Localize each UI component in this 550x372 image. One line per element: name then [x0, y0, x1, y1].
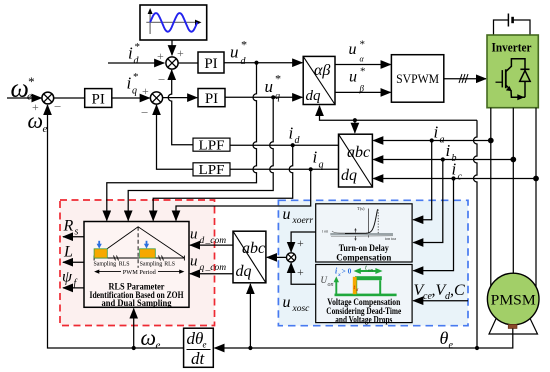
svg-text:RLS: RLS — [119, 262, 130, 268]
block PI q-axis controller — [198, 89, 225, 108]
sampling arrow 2 — [146, 241, 148, 246]
svg-text:+: + — [297, 236, 304, 250]
svg-text:on: on — [368, 269, 374, 274]
junction ud* node — [254, 61, 258, 65]
svg-text:i: i — [128, 44, 133, 63]
summing junction S4 compensation — [287, 236, 305, 279]
svg-text:RLS: RLS — [164, 262, 175, 268]
PWM period double arrow — [94, 268, 184, 276]
svg-text:*: * — [360, 66, 366, 78]
wire theta_e right vertical with hops — [474, 120, 477, 348]
block abc/dq compensation transform — [233, 231, 266, 283]
sampling axis — [94, 256, 184, 261]
junction ic drop node — [451, 176, 455, 180]
wire theta drop into abc/dq current transform — [354, 120, 356, 133]
block alphabeta/dq inverse Park transform — [303, 56, 335, 104]
svg-text:Sampling: Sampling — [140, 262, 163, 268]
sampling window 2 — [140, 249, 156, 258]
svg-text:u: u — [190, 227, 198, 243]
svg-text:e: e — [203, 340, 207, 350]
wire ib sign drop to turn-on comp — [413, 160, 443, 243]
svg-text:PWM Period: PWM Period — [123, 269, 157, 276]
svg-text:ton toa: ton toa — [385, 236, 396, 241]
svg-text:+: + — [157, 49, 164, 63]
wire u_xosc to S4 — [291, 263, 316, 284]
svg-text:*: * — [275, 72, 281, 86]
wire L output — [63, 261, 84, 263]
svg-text:dθ: dθ — [187, 329, 204, 348]
svg-text:i: i — [434, 123, 439, 142]
svg-text:SVPWM: SVPWM — [396, 72, 439, 86]
block voltage compensation — [316, 264, 412, 326]
junction omega to RLS node — [132, 346, 136, 350]
svg-text:PMSM: PMSM — [491, 293, 536, 309]
carrier centre dashed line — [137, 227, 139, 269]
svg-text:q: q — [275, 91, 280, 102]
block Inverter — [487, 35, 538, 108]
junction phase B tap — [510, 157, 516, 163]
svg-text:LPF: LPF — [199, 138, 225, 153]
svg-text:q: q — [132, 86, 137, 97]
svg-text:*: * — [28, 74, 35, 89]
wire PI speed to S2 — [112, 97, 150, 99]
wire S3 to PI d — [178, 62, 198, 64]
wire ic sign drop to voltage comp — [413, 179, 453, 271]
wire id drop to RLS with hop — [153, 145, 293, 220]
block SVPWM — [391, 55, 443, 102]
svg-text:abc: abc — [242, 240, 265, 257]
summing junction S2 — [141, 84, 163, 120]
svg-text:PI: PI — [92, 92, 105, 108]
block RLS identification — [84, 222, 189, 308]
block PI speed controller — [85, 89, 112, 108]
wire ud* drop to RLS with hops — [107, 63, 257, 221]
svg-text:+: + — [177, 46, 184, 60]
wire ib measurement to abc/dq — [373, 159, 513, 161]
svg-text:u: u — [230, 43, 239, 62]
svg-text:x: x — [337, 272, 341, 278]
svg-text:L: L — [63, 244, 73, 261]
IGBT symbol — [496, 81, 503, 83]
svg-text:,C: ,C — [450, 282, 465, 299]
svg-text:e: e — [43, 123, 48, 135]
wire id output to LPF1 — [230, 144, 339, 146]
svg-text:*: * — [241, 38, 247, 52]
wire Vce Vd C parameters to voltage comp — [413, 300, 468, 302]
block d(theta)/dt differentiator — [184, 328, 214, 368]
wire S2 to PI q — [163, 97, 198, 99]
svg-text:dq: dq — [341, 167, 357, 184]
wire ualpha* to SVPWM — [335, 64, 391, 66]
svg-text:e: e — [449, 340, 454, 351]
wire psi_f output — [63, 287, 84, 289]
wire omega_e up to RLS — [133, 309, 135, 348]
svg-text:t on: t on — [322, 229, 328, 234]
wire PI d to alphabeta-dq (ud*) — [224, 62, 302, 64]
svg-text:*: * — [359, 39, 365, 51]
svg-text:abc: abc — [347, 144, 370, 161]
block LPF2 — [193, 163, 230, 178]
svg-text:u: u — [283, 294, 291, 311]
svg-text:dq: dq — [306, 88, 322, 104]
wire u_xoerr to S4 — [291, 232, 316, 252]
svg-text:_com: _com — [205, 263, 227, 273]
svg-text:R: R — [63, 218, 74, 235]
svg-text:i: i — [446, 141, 451, 160]
wire PI q to alphabeta-dq (uq*) — [225, 96, 302, 98]
svg-text:−: − — [158, 72, 165, 87]
dead-time compensation dashed region box — [278, 200, 468, 325]
HF injection sine source box — [140, 5, 207, 40]
wire uq* drop to RLS with hops — [128, 97, 273, 220]
svg-text:d: d — [200, 236, 205, 246]
block abc/dq current transform — [339, 134, 373, 187]
svg-text:Compensation: Compensation — [336, 252, 391, 263]
svg-text:+: + — [297, 265, 304, 279]
wire LPF1 output to S3 minus with hop — [168, 70, 193, 145]
svg-text:i: i — [289, 124, 294, 143]
PWM carrier triangle — [94, 227, 184, 258]
svg-text:−: − — [54, 99, 61, 114]
svg-text:−: − — [141, 105, 148, 120]
summing junction S3 — [157, 46, 184, 87]
svg-text:*: * — [134, 41, 140, 53]
encoder — [508, 324, 517, 328]
wire ia measurement to abc/dq — [373, 140, 491, 142]
wire LPF2 output to S2 minus — [157, 105, 194, 169]
svg-text:c: c — [458, 172, 463, 183]
block PI d-axis controller — [198, 52, 224, 73]
svg-text:> 0: > 0 — [342, 267, 352, 276]
svg-text:u: u — [349, 41, 357, 58]
block LPF1 — [193, 138, 230, 153]
wire S4 to abc/dq — [267, 256, 287, 258]
svg-text:on: on — [328, 282, 334, 288]
junction phase C tap — [533, 176, 539, 182]
svg-text:ω: ω — [141, 325, 157, 350]
svg-text:PI: PI — [205, 91, 218, 107]
svg-text:i: i — [127, 74, 132, 93]
summing junction S1 — [32, 92, 61, 114]
green waveform — [335, 294, 397, 297]
svg-text:xosc: xosc — [292, 304, 311, 314]
svg-text:αβ: αβ — [314, 62, 330, 79]
RLS dashed region box — [60, 200, 215, 326]
junction theta to abc/dq — [353, 118, 357, 122]
junction iq node — [309, 167, 313, 171]
svg-text:dq: dq — [236, 263, 252, 280]
svg-text:ω: ω — [28, 108, 44, 133]
block PMSM motor — [487, 273, 539, 334]
wire id* input — [108, 62, 164, 64]
svg-text:q: q — [319, 160, 324, 171]
sampling arrow 1 — [98, 241, 100, 246]
block turn-on delay compensation — [316, 204, 412, 264]
battery DC bus symbol — [494, 14, 531, 36]
svg-text:u: u — [265, 77, 274, 96]
wire ia sign drop to turn-on comp — [413, 141, 431, 220]
wire ic measurement to abc/dq — [373, 178, 536, 180]
svg-text:dt: dt — [191, 349, 206, 368]
wire theta up to comp abc/dq — [249, 284, 251, 348]
junction phase A tap — [488, 138, 494, 144]
svg-text:i: i — [313, 148, 318, 167]
svg-text:T(s): T(s) — [357, 206, 365, 211]
svg-text:a: a — [440, 135, 445, 146]
junction ib drop node — [441, 157, 445, 161]
sampling window 1 — [94, 249, 107, 258]
svg-text:_com: _com — [205, 236, 227, 246]
svg-text:U: U — [321, 275, 328, 285]
junction uq* node — [271, 95, 275, 99]
wire iq drop to RLS — [176, 169, 311, 220]
svg-text:e: e — [156, 340, 161, 352]
wire Rs output — [63, 236, 84, 238]
wire SVPWM to inverter with gate bundle slashes — [444, 74, 486, 83]
svg-text:u: u — [283, 206, 291, 223]
svg-text:θ: θ — [440, 328, 449, 348]
wire ud_com to RLS — [190, 244, 233, 246]
svg-text:PI: PI — [204, 56, 217, 72]
wire S1 to PI speed — [54, 97, 85, 99]
wire iq output to LPF2 — [230, 168, 339, 170]
freewheel diode — [524, 69, 526, 97]
svg-text:u: u — [190, 254, 198, 270]
junction id node — [291, 143, 295, 147]
wire ubeta* to SVPWM — [335, 91, 391, 93]
wire phase C vertical — [535, 108, 537, 288]
svg-text:+: + — [142, 84, 149, 98]
wire omega_e output to S1 — [48, 105, 184, 348]
junction ia drop node — [430, 138, 434, 142]
svg-text:q: q — [200, 263, 205, 273]
svg-text:and Dual Sampling: and Dual Sampling — [102, 298, 172, 308]
svg-text:and Voltage Drops: and Voltage Drops — [335, 314, 392, 325]
svg-text:i: i — [452, 160, 457, 179]
junction theta vertical node — [475, 346, 479, 350]
svg-text:xoerr: xoerr — [292, 216, 314, 226]
junction theta to comp transform node — [248, 346, 252, 350]
svg-text:*: * — [133, 71, 139, 83]
wire phase B vertical — [512, 108, 514, 274]
wire sine to S3 — [171, 40, 173, 55]
wire theta_e bottom from encoder to d(theta)/dt — [215, 329, 513, 349]
svg-text:Sampling: Sampling — [94, 262, 117, 268]
wire theta_e top feedback — [320, 106, 478, 120]
wire omega_e* input — [7, 97, 42, 99]
svg-text:Inverter: Inverter — [492, 41, 532, 55]
svg-text:u: u — [349, 69, 357, 86]
wire phase A vertical — [490, 108, 492, 287]
svg-text:s: s — [75, 227, 79, 238]
svg-text:ψ: ψ — [62, 269, 73, 286]
svg-text:β: β — [359, 84, 365, 94]
wire uq_com to RLS — [190, 273, 233, 275]
svg-text:LPF: LPF — [199, 163, 225, 178]
